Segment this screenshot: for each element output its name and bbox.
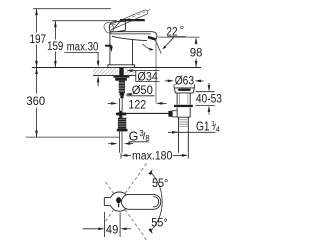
drain dia 63 dimension: [165, 81, 204, 88]
swivel arc: [151, 172, 162, 231]
angle 22 deg stream vertical: [155, 40, 157, 103]
drain body inner wall lines: [179, 93, 188, 104]
shank lower piece: [120, 93, 125, 96]
svg-text:Ø34: Ø34: [137, 70, 158, 84]
svg-text:55°: 55°: [151, 215, 167, 229]
dimension 49: [83, 212, 132, 237]
reference line hose end: [26, 136, 120, 138]
pop-up rod link: [126, 112, 168, 114]
drain body: [177, 93, 190, 105]
G3/8 collar: [117, 129, 128, 132]
extension line top (197 ref): [33, 8, 111, 10]
lever handle closed (thick bar): [120, 19, 145, 21]
drain side knob: [172, 111, 177, 117]
plan view pivot: [116, 197, 121, 203]
plan view lever inner cap: [153, 197, 159, 207]
svg-text:49: 49: [106, 222, 119, 236]
drain lower body: [177, 108, 190, 118]
drain plug dark band: [178, 89, 191, 91]
shank lower nub: [120, 96, 123, 99]
angle 22 deg slant line: [155, 40, 161, 54]
mounting nut: [115, 78, 127, 81]
label G1 1/4: [196, 119, 220, 134]
angle arc left: [143, 44, 151, 49]
svg-text:Ø50: Ø50: [132, 83, 153, 97]
mounting washer: [113, 75, 129, 77]
svg-text:159: 159: [47, 39, 63, 53]
supply pipe lower: [119, 132, 122, 153]
base plate: [108, 65, 135, 68]
dimension 122: [108, 102, 167, 104]
faucet body: [110, 32, 133, 65]
svg-text:max.180: max.180: [132, 148, 173, 162]
handle base phantom: [103, 21, 115, 34]
G3/8 dia arrows: [108, 143, 133, 145]
lever handle raised (phantom): [108, 9, 151, 29]
G3/8 threaded end: [118, 118, 126, 129]
pop-up tee cross: [116, 113, 127, 116]
spout top outline: [110, 32, 157, 40]
deck bottom line: [93, 75, 136, 77]
deck cross-section hatch left: [93, 68, 118, 76]
drain locknut: [174, 105, 193, 107]
dimension 197: [36, 9, 38, 68]
spout underside curve: [112, 36, 147, 41]
handle base: [110, 21, 126, 31]
deck line: [32, 67, 201, 69]
handle base crease: [111, 22, 121, 31]
threaded shank: [119, 81, 125, 93]
svg-text:55°: 55°: [152, 176, 168, 190]
svg-text:360: 360: [26, 94, 45, 108]
dimension 40-53: [196, 83, 215, 115]
svg-text:122: 122: [128, 98, 146, 112]
svg-text:4: 4: [216, 124, 220, 133]
dimension max.180: [121, 153, 188, 159]
label G3/8: [129, 129, 151, 144]
plan view lever: [122, 194, 161, 209]
plan view body circle: [110, 192, 129, 211]
svg-text:Ø63: Ø63: [175, 74, 195, 88]
swivel dashed line up: [105, 164, 147, 240]
svg-text:197: 197: [30, 32, 47, 46]
dimension 98: [158, 36, 200, 38]
label dia 50: [125, 93, 131, 96]
svg-text:98: 98: [190, 46, 203, 60]
drain pop-up waste flange: [174, 88, 194, 93]
supply pipe upper: [120, 98, 123, 111]
dimension 360: [36, 68, 38, 137]
aerator: [148, 36, 157, 41]
deck cross-section hatch right: [126, 68, 136, 76]
plan view spout stub: [104, 197, 111, 205]
svg-text:°: °: [180, 25, 184, 37]
dimension 159: [54, 21, 56, 68]
drain tailpipe: [179, 117, 189, 153]
svg-text:G1: G1: [196, 120, 210, 134]
label dia 34: [126, 69, 132, 72]
shank rod through deck: [119, 68, 123, 76]
svg-text:max.30: max.30: [67, 40, 99, 54]
spout inner line: [110, 33, 150, 35]
svg-text:40-53: 40-53: [196, 92, 222, 106]
extension line (159 ref): [52, 20, 117, 22]
operation arrow flag: [105, 45, 112, 47]
